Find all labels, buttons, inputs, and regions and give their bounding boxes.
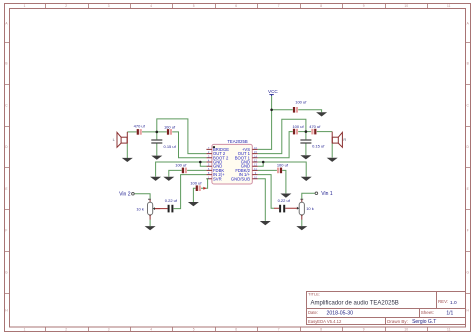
wire C100 r to node (298, 131, 306, 133)
svg-text:GND/SUB: GND/SUB (231, 176, 250, 181)
wire speaker R to ground (331, 143, 333, 158)
wire FDBK2 to C100 r2 (258, 169, 277, 171)
svg-text:TITLE:: TITLE: (308, 291, 320, 296)
wire FDBK to C100 (187, 169, 206, 171)
svg-text:2018-05-30: 2018-05-30 (327, 310, 354, 316)
op IC U1 TEA2025B body (212, 139, 252, 184)
svg-text:E: E (5, 187, 7, 191)
ground 0.15uf left (151, 156, 162, 160)
wire node to C470 r (306, 131, 311, 133)
wire IN2 to C0.22 (174, 175, 207, 209)
svg-text:Vin 1: Vin 1 (321, 191, 333, 197)
svg-text:Vin 2: Vin 2 (119, 191, 131, 197)
svg-text:8: 8 (320, 4, 322, 8)
wire +VS to VCC (258, 96, 272, 150)
ground VCC cap (316, 112, 327, 116)
svg-text:0.22 uf: 0.22 uf (278, 198, 291, 203)
svg-text:1: 1 (24, 4, 26, 8)
svg-text:4: 4 (150, 4, 152, 8)
svg-text:11: 11 (447, 4, 451, 8)
wire GND/SUB to ground (258, 179, 266, 221)
svg-text:3: 3 (108, 4, 110, 8)
svg-text:100 uf: 100 uf (175, 162, 187, 167)
speaker LS1 left (117, 132, 127, 147)
wire node r to 0.15uf r (305, 132, 307, 140)
terminal Vin 1 (315, 191, 333, 197)
svg-text:F: F (467, 229, 469, 233)
wire 0.15uf r to ground (305, 143, 307, 155)
svg-text:1/1: 1/1 (446, 310, 453, 316)
wire C100 vcc to ground (298, 110, 321, 112)
wire OUT1 loop (258, 119, 306, 153)
ground 0.15uf right (300, 155, 311, 159)
svg-text:Sheet:: Sheet: (421, 310, 434, 315)
ground SVR cap (188, 202, 199, 206)
wire C100 FDBK to ground (169, 170, 182, 176)
wire C470 to C100 left row (142, 131, 167, 133)
svg-text:Sergio G.T: Sergio G.T (412, 319, 436, 325)
wire speaker L to ground (126, 143, 128, 158)
svg-text:6: 6 (235, 4, 237, 8)
wire GND pin 2 right branch (258, 162, 263, 166)
svg-text:Amplificador de audio TEA2025B: Amplificador de audio TEA2025B (311, 301, 399, 307)
capacitor C100 VCC (293, 100, 307, 113)
capacitor C100 left output 100uf (164, 124, 176, 134)
wire SVR to C100 svr (201, 179, 208, 188)
IC U1 left pin stubs (206, 149, 212, 178)
wire 0.15uf to ground (156, 143, 158, 156)
svg-text:4: 4 (150, 328, 152, 332)
wire C100 svr to ground (193, 188, 195, 202)
capacitor C470 left 470uf (134, 124, 146, 135)
svg-text:VCC: VCC (268, 89, 278, 94)
wire pot R bottom to ground (301, 220, 303, 226)
svg-text:0.15 uf: 0.15 uf (164, 144, 177, 149)
svg-text:2: 2 (65, 328, 67, 332)
capacitor C100 BOOT right (292, 124, 304, 134)
title block (307, 292, 466, 325)
wire GND pin 2 left branch (200, 162, 206, 166)
ground GND/SUB (260, 221, 271, 225)
IC U1 right pin stubs (252, 149, 257, 178)
svg-text:REV:: REV: (438, 299, 448, 304)
wire GND pins right (258, 162, 306, 177)
svg-text:Date:: Date: (308, 310, 318, 315)
svg-text:2: 2 (65, 4, 67, 8)
ground pot right (296, 226, 307, 230)
svg-text:B: B (5, 62, 7, 66)
svg-text:TEA2025B: TEA2025B (227, 139, 247, 144)
ground FDBK left (163, 177, 174, 181)
ground GND pins right (301, 177, 312, 181)
wire C0.22 r to pot r (274, 207, 297, 209)
svg-text:7: 7 (278, 328, 280, 332)
capacitor C100 SVR (190, 181, 202, 191)
svg-text:8: 8 (320, 328, 322, 332)
wire IN1 to C0.22 r (258, 175, 274, 209)
ground FDBK2 right (280, 194, 291, 198)
ground pot left (145, 226, 156, 230)
svg-text:100 uf: 100 uf (292, 124, 304, 129)
svg-text:0.15 uf: 0.15 uf (312, 144, 325, 149)
svg-text:1.0: 1.0 (450, 300, 457, 306)
svg-text:5: 5 (193, 328, 195, 332)
IC U1 pin numbers (208, 146, 258, 179)
capacitor C0.22 right (278, 198, 291, 213)
svg-text:R: R (343, 137, 346, 142)
ground speaker L (122, 158, 133, 162)
capacitor C100 FDBK2 right (277, 162, 289, 173)
speaker LS2 right (332, 132, 342, 148)
capacitor 0.15uf right (300, 139, 325, 148)
svg-text:0.22 uf: 0.22 uf (165, 198, 178, 203)
wire pot L bottom to ground (149, 220, 151, 226)
junction node dots (156, 109, 308, 164)
wire C100 r2 to ground (282, 170, 286, 193)
capacitor C470 right 470uf (309, 124, 321, 135)
svg-text:9: 9 (363, 4, 365, 8)
svg-text:10 k: 10 k (136, 206, 144, 211)
terminal Vin 2 (119, 191, 134, 197)
svg-text:470 uf: 470 uf (309, 124, 321, 129)
svg-text:10: 10 (404, 328, 408, 332)
capacitor C100 FDBK left (175, 162, 187, 173)
capacitor C0.22 left (165, 198, 178, 212)
svg-text:470 uf: 470 uf (134, 124, 146, 129)
wire node OUT2 loop (157, 119, 207, 154)
wire Vin2 to pot (134, 194, 150, 200)
svg-text:100 uf: 100 uf (164, 124, 176, 129)
capacitor 0.15uf left (151, 139, 176, 148)
svg-text:5: 5 (193, 4, 195, 8)
wire VCC node to C100 vcc (272, 109, 293, 111)
svg-text:10 k: 10 k (306, 206, 314, 211)
wire C470 r to speaker R (317, 131, 332, 133)
wire node to 0.15uf (156, 132, 158, 140)
svg-text:E: E (467, 187, 469, 191)
wire GND pins left (156, 162, 207, 177)
polarity plus mark SVR cap (203, 187, 206, 190)
potentiometer RP1 right 10k (297, 199, 314, 220)
svg-text:3: 3 (108, 328, 110, 332)
IC U1 pin names right (231, 147, 251, 181)
svg-text:Drawn By:: Drawn By: (387, 319, 408, 324)
ground GND pins left (150, 177, 161, 181)
svg-text:11: 11 (447, 328, 451, 332)
svg-text:F: F (5, 229, 7, 233)
svg-text:6: 6 (235, 328, 237, 332)
VCC net flag (268, 89, 278, 96)
svg-text:7: 7 (278, 4, 280, 8)
IC U1 pin names left (213, 147, 229, 181)
ground speaker R (327, 158, 338, 162)
wire Vin1 to pot r (302, 193, 315, 199)
svg-text:100 uf: 100 uf (295, 100, 307, 105)
svg-text:EasyEDA V5.4.12: EasyEDA V5.4.12 (308, 319, 342, 324)
wire C100 left to BOOT2 (172, 132, 206, 158)
wire speaker L to C470 (127, 131, 136, 133)
svg-text:1: 1 (24, 328, 26, 332)
wire C0.22 left to pot (155, 208, 168, 210)
svg-text:9: 9 (363, 328, 365, 332)
potentiometer RP2 left 10k (136, 199, 160, 220)
svg-text:100 uf: 100 uf (277, 162, 289, 167)
svg-text:B: B (467, 62, 469, 66)
svg-text:100 uf: 100 uf (190, 181, 202, 186)
svg-text:SVR: SVR (213, 176, 222, 181)
svg-text:10: 10 (404, 4, 408, 8)
wire BOOT1 to C100 r (258, 132, 293, 158)
